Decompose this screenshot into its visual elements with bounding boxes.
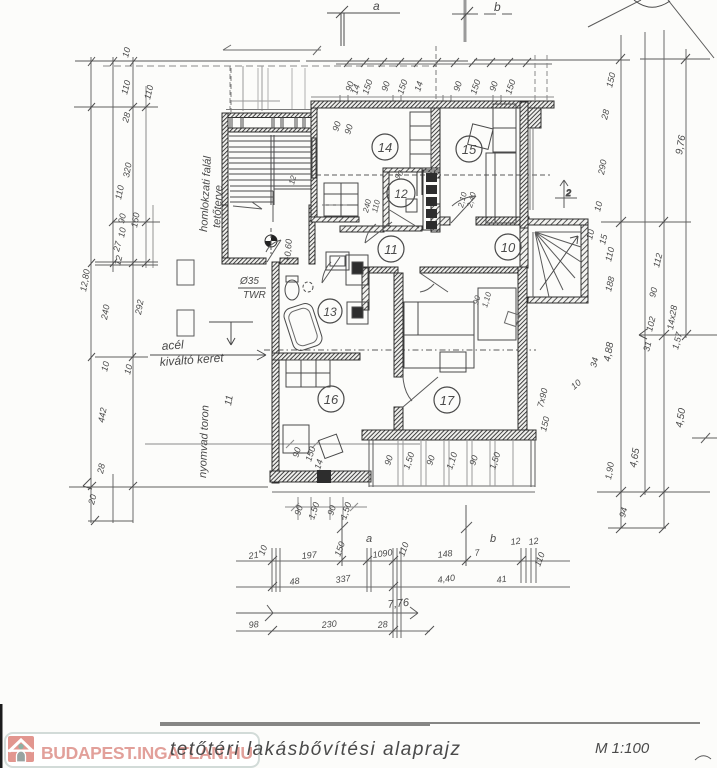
room14 left wall lower — [311, 178, 317, 222]
scan edge black bar — [0, 704, 3, 768]
floor drain circle — [303, 282, 313, 292]
svg-text:tetőtéri lakásbővítési alapraj: tetőtéri lakásbővítési alaprajz — [170, 739, 462, 760]
stair block outer top wall — [227, 113, 317, 118]
WC diagonal — [388, 209, 419, 228]
dim line y507 — [285, 503, 367, 511]
window ticks above main wall — [340, 95, 501, 101]
stair roof line — [230, 100, 280, 102]
left horizontal tick line y263 — [95, 262, 158, 265]
room16 wardrobe — [286, 360, 330, 387]
main top wall sill line — [311, 96, 554, 98]
steel frame leader line — [150, 350, 266, 360]
stair block right wall upper — [311, 113, 317, 205]
WC bottom wall left extension — [340, 226, 384, 232]
bottom vertical tick cluster x341 section a — [337, 517, 348, 566]
top band numbers — [330, 78, 517, 135]
corridor door swing to room14 — [365, 222, 392, 243]
stair block left wall — [222, 113, 228, 264]
vertical dashed axis x436 — [435, 46, 437, 102]
left column numbers — [78, 46, 155, 506]
bottom dim line y587 — [236, 586, 570, 588]
vertical dashed axis x231 — [230, 68, 232, 112]
stair10 winder treads — [533, 232, 581, 297]
door swing room15 — [451, 196, 476, 223]
washing machine room13 — [326, 252, 349, 270]
svg-text:17: 17 — [440, 393, 455, 408]
vertical handwritten label homlokzati — [198, 155, 225, 232]
room15 closet — [493, 104, 516, 152]
svg-text:nyomvad toron: nyomvad toron — [197, 405, 212, 478]
room14 left wall — [311, 108, 317, 138]
room circle 17 — [434, 387, 460, 413]
room15 bottom wall stub — [440, 217, 450, 225]
svg-text:197: 197 — [301, 549, 318, 561]
room17 right wall — [518, 267, 527, 435]
svg-text:14: 14 — [378, 140, 392, 155]
acel kivalto keret note — [159, 337, 225, 369]
svg-text:148: 148 — [437, 548, 453, 560]
logo door — [17, 751, 26, 762]
dimension line right vertical 4 — [685, 49, 687, 338]
terrace numbers — [312, 387, 551, 471]
section mark b top — [452, 0, 512, 42]
stair landing line — [274, 186, 312, 189]
vestibule bottom wall — [222, 258, 266, 264]
room circle 13 — [318, 299, 342, 323]
vestibule left wall — [222, 205, 228, 264]
guide dashed vertical above stairs — [229, 66, 231, 109]
stairwell treads — [229, 136, 312, 202]
svg-text:230: 230 — [320, 618, 337, 630]
shaft strip with dark boxes — [423, 170, 440, 230]
left horizontal tick line y516 — [88, 520, 133, 522]
door gap swing to room17 — [420, 273, 448, 292]
WC sink — [406, 199, 417, 212]
right tick hatches on top line — [616, 54, 690, 64]
dimension line left vertical 4 — [145, 86, 147, 268]
svg-text:28: 28 — [376, 619, 388, 630]
room circle 15 — [456, 136, 482, 162]
rooms17 top wall right part — [420, 267, 524, 273]
top small arrow line — [223, 45, 321, 55]
left horizontal tick line y487 — [69, 486, 268, 488]
small v arrow — [209, 322, 253, 345]
terrace right edge — [531, 440, 535, 487]
svg-text:TWR: TWR — [243, 290, 266, 301]
right short line y438 — [692, 433, 717, 443]
bottom tick hatches — [268, 556, 526, 635]
svg-text:10: 10 — [116, 227, 128, 239]
bottom dim line y561 — [236, 560, 570, 562]
north symbol diagonal left — [588, 0, 641, 27]
svg-text:12: 12 — [510, 536, 521, 547]
WC room walls — [383, 168, 440, 172]
wall between room14 and room15 — [431, 108, 440, 178]
svg-text:a: a — [373, 0, 380, 13]
logo roof circle — [18, 744, 23, 749]
numbers mid vertical lines y497-520 — [298, 497, 343, 520]
left tick hatches — [88, 57, 150, 525]
entry area right wall — [520, 228, 528, 268]
stair stringer — [271, 135, 274, 205]
closet at wall 14/15 — [410, 112, 431, 168]
svg-text:b: b — [494, 0, 501, 14]
svg-text:tetőterve: tetőterve — [211, 185, 225, 228]
north symbol arc — [634, 0, 670, 7]
logo house roof — [10, 740, 32, 751]
stair walk arrow — [233, 191, 273, 222]
interior room numbers — [287, 168, 493, 308]
room14 bottom wall — [311, 217, 359, 222]
right wall corner pier — [528, 108, 541, 128]
svg-text:13: 13 — [323, 305, 337, 319]
sink boxes on wall 13 — [346, 255, 368, 324]
svg-text:b: b — [490, 533, 496, 545]
room17 bed — [404, 302, 474, 368]
left legend window rect 1 — [177, 260, 194, 285]
left horizontal tick line y222 — [112, 221, 160, 223]
svg-text:12: 12 — [528, 536, 539, 547]
stair10 right wall — [581, 225, 588, 303]
dashed axis through rooms y175 — [316, 174, 550, 176]
bottom vertical tick cluster x521 — [521, 548, 536, 583]
svg-text:11: 11 — [384, 242, 398, 257]
stair10 bottom wall — [528, 297, 588, 303]
svg-text:48: 48 — [289, 576, 300, 587]
svg-text:a: a — [366, 533, 372, 545]
room15 bottom wall — [476, 217, 529, 225]
bathroom13 right wall — [362, 268, 369, 310]
svg-text:90: 90 — [116, 213, 128, 225]
terrace inner verticals — [398, 440, 513, 486]
room14 left window — [312, 138, 316, 178]
svg-text:15: 15 — [462, 142, 477, 157]
vestibule bottom wall right piece — [280, 258, 298, 264]
svg-text:98: 98 — [248, 619, 259, 630]
right horizontal tick line y492 — [597, 491, 710, 493]
main long top dimension line — [75, 59, 710, 61]
top left long dashed guide line — [103, 65, 437, 67]
left legend window rect 2 — [177, 310, 194, 336]
stair block upper edge line — [226, 109, 318, 111]
svg-text:12: 12 — [394, 187, 408, 201]
bottom dim line y613 with arrows — [236, 605, 418, 621]
top band dimension ticks over plan — [336, 63, 552, 65]
bottom vertical tick cluster x272 — [272, 548, 280, 592]
dimension line left vertical 1 — [90, 57, 92, 523]
right horizontal tick line y222 — [601, 221, 691, 223]
dash-dot axis y350 — [264, 349, 536, 351]
dimension line left vertical 3 — [132, 57, 134, 523]
vertical dashed axis x535 — [534, 55, 536, 102]
dimension line right vertical 2 — [644, 32, 646, 495]
bathroom13 door swing — [322, 257, 340, 283]
svg-text:acél: acél — [161, 337, 184, 353]
logo rounded box — [5, 733, 259, 767]
dimension line left vertical 2 — [112, 57, 114, 523]
room17 tilted paper — [504, 311, 519, 326]
room circle 10 — [495, 234, 521, 260]
room circle 16 — [318, 386, 344, 412]
room16 left wall — [272, 360, 279, 483]
right wall window lines — [530, 128, 533, 210]
faint guide verticals above stairs — [258, 68, 305, 109]
logo house tile — [8, 736, 34, 762]
door swing vestibule — [266, 240, 281, 262]
bottom numbers — [247, 533, 547, 630]
title underline — [160, 723, 700, 725]
svg-text:16: 16 — [324, 392, 339, 407]
bottom vertical tick cluster x393 — [393, 548, 401, 638]
vestibule right wall — [309, 205, 315, 264]
stair10 arrow — [540, 236, 578, 290]
terrace left edge — [369, 440, 373, 487]
bathroom13 left wall outer — [272, 262, 279, 360]
bathroom13 bottom wall — [272, 353, 360, 360]
section mark a top — [327, 6, 400, 46]
right horizontal tick line y528 — [608, 527, 666, 529]
corridor bottom wall / rooms16-17 top wall — [360, 267, 398, 273]
right wall upper — [520, 102, 528, 228]
room17 small table — [440, 352, 466, 372]
bottom vertical section b x466 — [461, 505, 472, 566]
interior dim line room16 y444 — [145, 440, 420, 448]
central wall lower piece — [394, 407, 403, 433]
room16 bottom wall — [270, 471, 371, 482]
svg-text:41: 41 — [496, 574, 507, 585]
wall stub below closet — [431, 204, 440, 232]
level mark small e2 — [555, 180, 577, 208]
svg-text:M 1:100: M 1:100 — [595, 740, 650, 757]
svg-text:10: 10 — [501, 240, 516, 255]
left horizontal tick line y357 — [95, 356, 148, 358]
O35 TWR note — [238, 276, 266, 301]
room circle 11 — [378, 236, 404, 262]
svg-text:11: 11 — [223, 394, 236, 406]
stair10 top wall — [528, 219, 588, 225]
dimension line right vertical 3 — [663, 30, 665, 528]
logo eave line — [8, 750, 34, 752]
right column numbers — [569, 71, 689, 518]
room circle 12 — [387, 179, 415, 207]
bottom right pencil curve — [695, 756, 711, 760]
svg-text:+0,60: +0,60 — [282, 239, 294, 263]
stair block inner top wall — [227, 128, 317, 132]
guide verticals above stair block — [243, 66, 262, 111]
svg-text:Ø35: Ø35 — [239, 276, 259, 287]
bathtub room13 — [282, 301, 324, 352]
left horizontal tick line y107 — [74, 106, 158, 108]
central wall door swing — [403, 377, 438, 407]
room16 bottom wall dark block — [317, 470, 331, 483]
main top wall — [311, 101, 554, 108]
bottom dim line y631 — [236, 630, 430, 632]
toilet room13 — [285, 280, 299, 300]
numbers under room16 wall — [290, 445, 353, 520]
room15 bed — [486, 153, 516, 223]
central wall between 16 and 17 — [394, 273, 403, 377]
svg-text:2: 2 — [565, 188, 571, 198]
left bottom arrow mark — [83, 478, 92, 489]
room17 bottom wall — [362, 430, 536, 440]
terrace bottom line — [272, 486, 535, 492]
stair piers between wall bands — [230, 117, 305, 128]
svg-text:7,76: 7,76 — [387, 597, 410, 611]
room16 table — [283, 425, 309, 453]
bottom vertical tick cluster x367 — [367, 548, 371, 592]
right horizontal tick line y335 — [639, 334, 717, 336]
room15 desk tilted — [468, 124, 493, 149]
room14 closet — [324, 183, 358, 216]
column marker circle filled quarters — [265, 228, 277, 254]
vertical dashed axis x547 — [546, 55, 548, 102]
dimension line left vertical 5 short — [152, 205, 154, 268]
dimension line right vertical 1 — [620, 35, 622, 528]
room14 dashed floor line — [322, 204, 350, 206]
room16 chair tilted — [318, 434, 342, 458]
room17 closet right — [478, 288, 516, 340]
room circle 14 — [372, 134, 398, 160]
north symbol diagonal right — [668, 0, 714, 58]
